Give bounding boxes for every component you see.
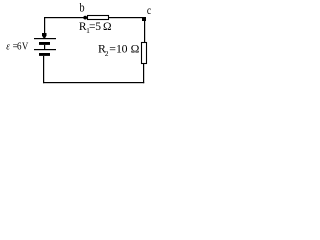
label c (147, 4, 151, 17)
battery cell1 short thick plate (39, 42, 50, 45)
svg-text:R1=5Ω: R1=5Ω (79, 21, 112, 35)
wire top right: R1 to node c (109, 17, 143, 18)
svg-text:ε=6V: ε=6V (6, 41, 28, 53)
battery inter-cell wire (44, 45, 45, 49)
label R2=10ohm (98, 42, 140, 58)
label b (80, 2, 85, 15)
battery cell2 short thick plate (39, 53, 50, 56)
label emf e=6V (6, 41, 28, 53)
node b junction dot (83, 16, 87, 20)
wire left upper: corner down to battery plate (44, 17, 45, 38)
current arrow on left wire (42, 33, 47, 38)
svg-text:c: c (147, 4, 151, 17)
wire left lower: battery down to bottom corner (43, 56, 44, 83)
resistor R2 (142, 43, 147, 64)
wire bottom (43, 82, 144, 83)
svg-text:b: b (80, 2, 85, 15)
label R1=5ohm (79, 21, 112, 35)
wire right lower: R2 down to bottom corner (143, 64, 144, 84)
battery cell1 long plate (34, 38, 56, 39)
battery cell2 long plate (34, 49, 56, 50)
node c junction square (142, 17, 146, 21)
resistor R1 (88, 16, 109, 20)
svg-text:R2=10Ω: R2=10Ω (98, 42, 140, 58)
wire top left: node a corner to node b (44, 17, 87, 18)
wire right upper: node c down to R2 (144, 21, 145, 43)
